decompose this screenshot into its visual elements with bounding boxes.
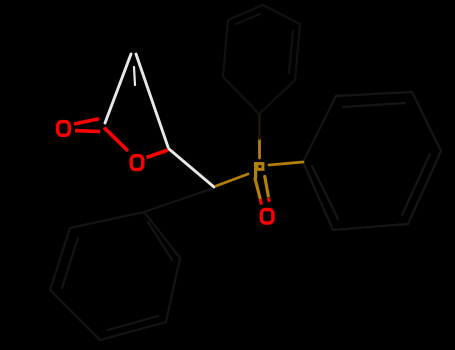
P atom label (stem + square bowl) bbox=[256, 162, 263, 179]
bond O1-C5 bbox=[147, 150, 169, 158]
double bond inner dash C3=C4 bbox=[134, 67, 135, 85]
bond P-up olive half bbox=[258, 139, 261, 158]
phenyl ring bottom-left (attached to CH, dark) bbox=[50, 212, 180, 340]
phenyl ring top (attached to P, dark) bbox=[223, 5, 300, 114]
C2=O double bond dash upper bbox=[74, 119, 99, 124]
ring O1 atom label bbox=[131, 156, 143, 170]
P=O right line red tip bbox=[267, 198, 271, 202]
exocyclic O atom label bbox=[58, 122, 70, 136]
C2=O double bond dash lower bbox=[75, 131, 100, 132]
P=O oxygen atom label bbox=[261, 209, 273, 223]
bond P-right to phenyl bbox=[269, 162, 303, 165]
phosphorus bonds (olive) bbox=[216, 139, 303, 198]
P=O left line red tip bbox=[260, 199, 261, 205]
phenyl ring right (attached to P, dark) bbox=[303, 92, 441, 230]
bond C2-C3 bbox=[105, 54, 131, 123]
wire: bond CH to bottom-left phenyl (dark) bbox=[144, 189, 211, 212]
bond CH-P bbox=[216, 174, 248, 186]
P=O double bond left line (olive part) bbox=[255, 179, 260, 199]
bond C2-O1 bbox=[104, 128, 128, 152]
P=O double bond right line (olive part) bbox=[265, 177, 269, 197]
lactone ring carbon bonds (pale) bbox=[105, 54, 214, 187]
bond C4-C5 bbox=[136, 54, 168, 147]
oxygen bonds (red) bbox=[74, 119, 168, 158]
bond P-up dark half (to top phenyl) bbox=[258, 114, 260, 139]
bond C5-CH bbox=[169, 149, 214, 187]
